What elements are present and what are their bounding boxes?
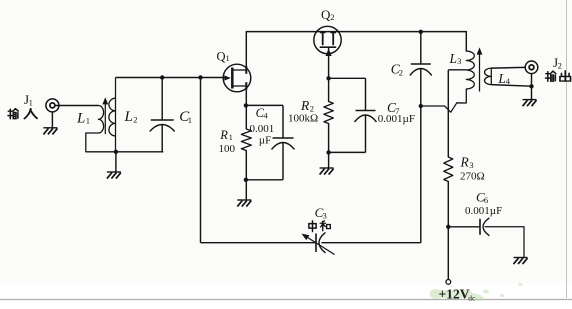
svg-text:1: 1 [188,115,192,125]
label L3 [449,51,462,66]
value uF of C4 [259,135,271,147]
resistor R3 [444,157,453,182]
label L4 [497,71,510,86]
label 输出 (output) [546,71,571,82]
wire C6 left lead [448,226,480,228]
inductor L1 [86,106,104,152]
label Q1 [217,49,230,63]
svg-text:0.001: 0.001 [250,123,275,135]
svg-text:1: 1 [29,98,33,108]
node J2 ground junction [529,84,533,88]
node R3 to C6 junction [446,225,450,229]
node C1 top [160,75,164,79]
wire R2 bottom lead [328,124,330,153]
value 0.001 of C4 [250,123,275,135]
wire C4 bottom to R1 bottom [246,179,283,181]
svg-text:µF: µF [259,135,271,147]
capacitor C4 [272,138,294,149]
ground under input tank [107,172,121,179]
wire gate riser to C3 [200,78,202,243]
wire C3 left [201,242,317,244]
wire R1 top lead [245,105,247,129]
node Q2 gate junction [326,76,330,80]
wire bottom of input tank [86,151,164,153]
label C3 [315,205,327,221]
node L2 bottom junction [114,150,118,154]
svg-text:3: 3 [323,210,327,220]
terminal +12Vdc [446,280,451,285]
wire C2 bottom lead [420,69,422,106]
wire L2 top to Q1 gate [116,77,226,79]
label C1 [179,109,192,125]
label Q2 [321,7,335,22]
wire L3 tap [448,69,466,71]
label L2 [124,109,138,125]
wire source node to C4 [246,104,283,106]
node gate to C3 riser [198,75,202,79]
svg-text:270Ω: 270Ω [460,171,485,183]
svg-text:R: R [219,128,228,142]
svg-text:L: L [76,110,85,126]
svg-text:L: L [124,109,133,125]
value 100 of R1 [219,143,236,155]
label C4 [256,106,269,121]
node C2 bottom junction [419,104,423,108]
svg-text:L: L [497,71,506,86]
green highlight behind +12V [430,283,523,302]
capacitor C1 [150,120,174,131]
bottom page border line [0,299,572,301]
capacitor C3 (variable) [316,233,325,253]
svg-text:R: R [460,155,470,170]
value 0.001uF of C6 [465,205,502,217]
ground under R2 [320,168,334,175]
ground under R1 [237,200,251,207]
wire R1 ground stem [245,180,247,200]
svg-text:1: 1 [226,53,230,63]
core arrow of L1/L2 [102,97,108,134]
capacitor C7 [355,111,376,122]
resistor R1 [241,129,251,151]
wire C4 top lead [282,105,284,138]
wire C4 bottom lead [282,143,284,180]
label 输入 (input) [8,109,37,119]
svg-text:1: 1 [229,132,233,142]
svg-text:+12V: +12V [439,286,470,301]
svg-text:L: L [449,51,458,66]
inductor L4 [484,68,491,85]
svg-text:100kΩ: 100kΩ [288,113,318,125]
label J2 [553,55,562,71]
ground under C6 [514,258,528,265]
label C2 [391,61,403,77]
svg-text:R: R [300,98,310,113]
wire C2 top lead [420,32,422,64]
transistor Q1 [223,64,251,92]
svg-text:dc: dc [468,294,476,303]
value 100k ohm of R2 [288,113,318,125]
wire C3 right to C2 bottom [322,242,421,244]
wire C2 bottom node down to C3 wire [420,106,422,243]
svg-text:2: 2 [330,12,334,22]
node rail to C2 [419,30,423,34]
wire J1 ground stem [51,112,53,127]
node R2 bottom junction [326,150,330,154]
wire Q2 gate lead [328,47,330,78]
svg-text:3: 3 [457,56,461,66]
label J1 [24,92,33,108]
svg-text:3: 3 [469,160,473,170]
core arrow of L3/L4 [477,47,483,91]
svg-text:2: 2 [399,67,403,77]
svg-text:1: 1 [86,116,90,126]
svg-text:0.001µF: 0.001µF [465,205,502,217]
svg-text:6: 6 [484,195,488,205]
label C7 [387,100,399,116]
wire R1 bottom lead [245,151,247,180]
wire Q1 source [245,90,247,106]
node Q1 source junction [244,103,248,107]
wire Q1 drain to rail and rail to L3 [246,32,466,70]
label L1 [76,110,90,126]
label +12Vdc [439,286,477,302]
wire L4 bottom to J2 ground [491,85,531,87]
wire R2 top lead [328,78,330,101]
svg-text:100: 100 [219,143,236,155]
right page border line [566,0,568,298]
node R1 bottom junction [244,178,248,182]
value 270 ohm of R3 [460,171,485,183]
label R2 [300,98,314,114]
capacitor C6 [480,218,489,235]
wire C7 bottom lead [365,116,367,153]
svg-text:2: 2 [133,115,137,125]
resistor R2 [324,102,333,124]
svg-text:2: 2 [558,61,562,71]
wire R2 ground stem [328,152,330,167]
wire C6 right lead to ground [485,227,524,257]
svg-text:4: 4 [263,110,268,120]
svg-text:Q: Q [217,49,226,63]
connector J2 [525,61,538,74]
value 0.001uF of C7 [378,113,415,125]
wire R3 bottom lead [447,182,449,280]
ground under J1 [43,128,57,135]
wire L3 tap to R3 [447,70,449,157]
capacitor C2 [410,64,431,75]
wire L4 top to J2 [491,66,525,69]
wire C1 top lead [161,78,163,121]
wire C7 bottom to R2 bottom [329,151,366,153]
connector J1 [46,99,59,112]
label R1 [219,128,233,142]
wire C1 bottom lead [161,125,163,152]
arrow of variable capacitor C3 [302,234,335,255]
label C6 [476,190,488,206]
transistor Q2 [314,26,341,56]
wire C7 top lead [365,78,367,110]
label 中和 (neutralize) [309,221,330,232]
wire gate node to C7 [329,77,366,79]
inductor L3 [466,51,474,103]
label R3 [460,155,474,171]
ground under J2 [523,100,537,107]
wire tank bottom with crossover jump [421,103,467,112]
wire J2 ground stem [531,74,533,100]
svg-text:0.001µF: 0.001µF [378,113,415,125]
wire ground stem of input tank [115,152,117,172]
wire J1 to L1 [55,105,99,107]
inductor L2 [109,78,116,152]
